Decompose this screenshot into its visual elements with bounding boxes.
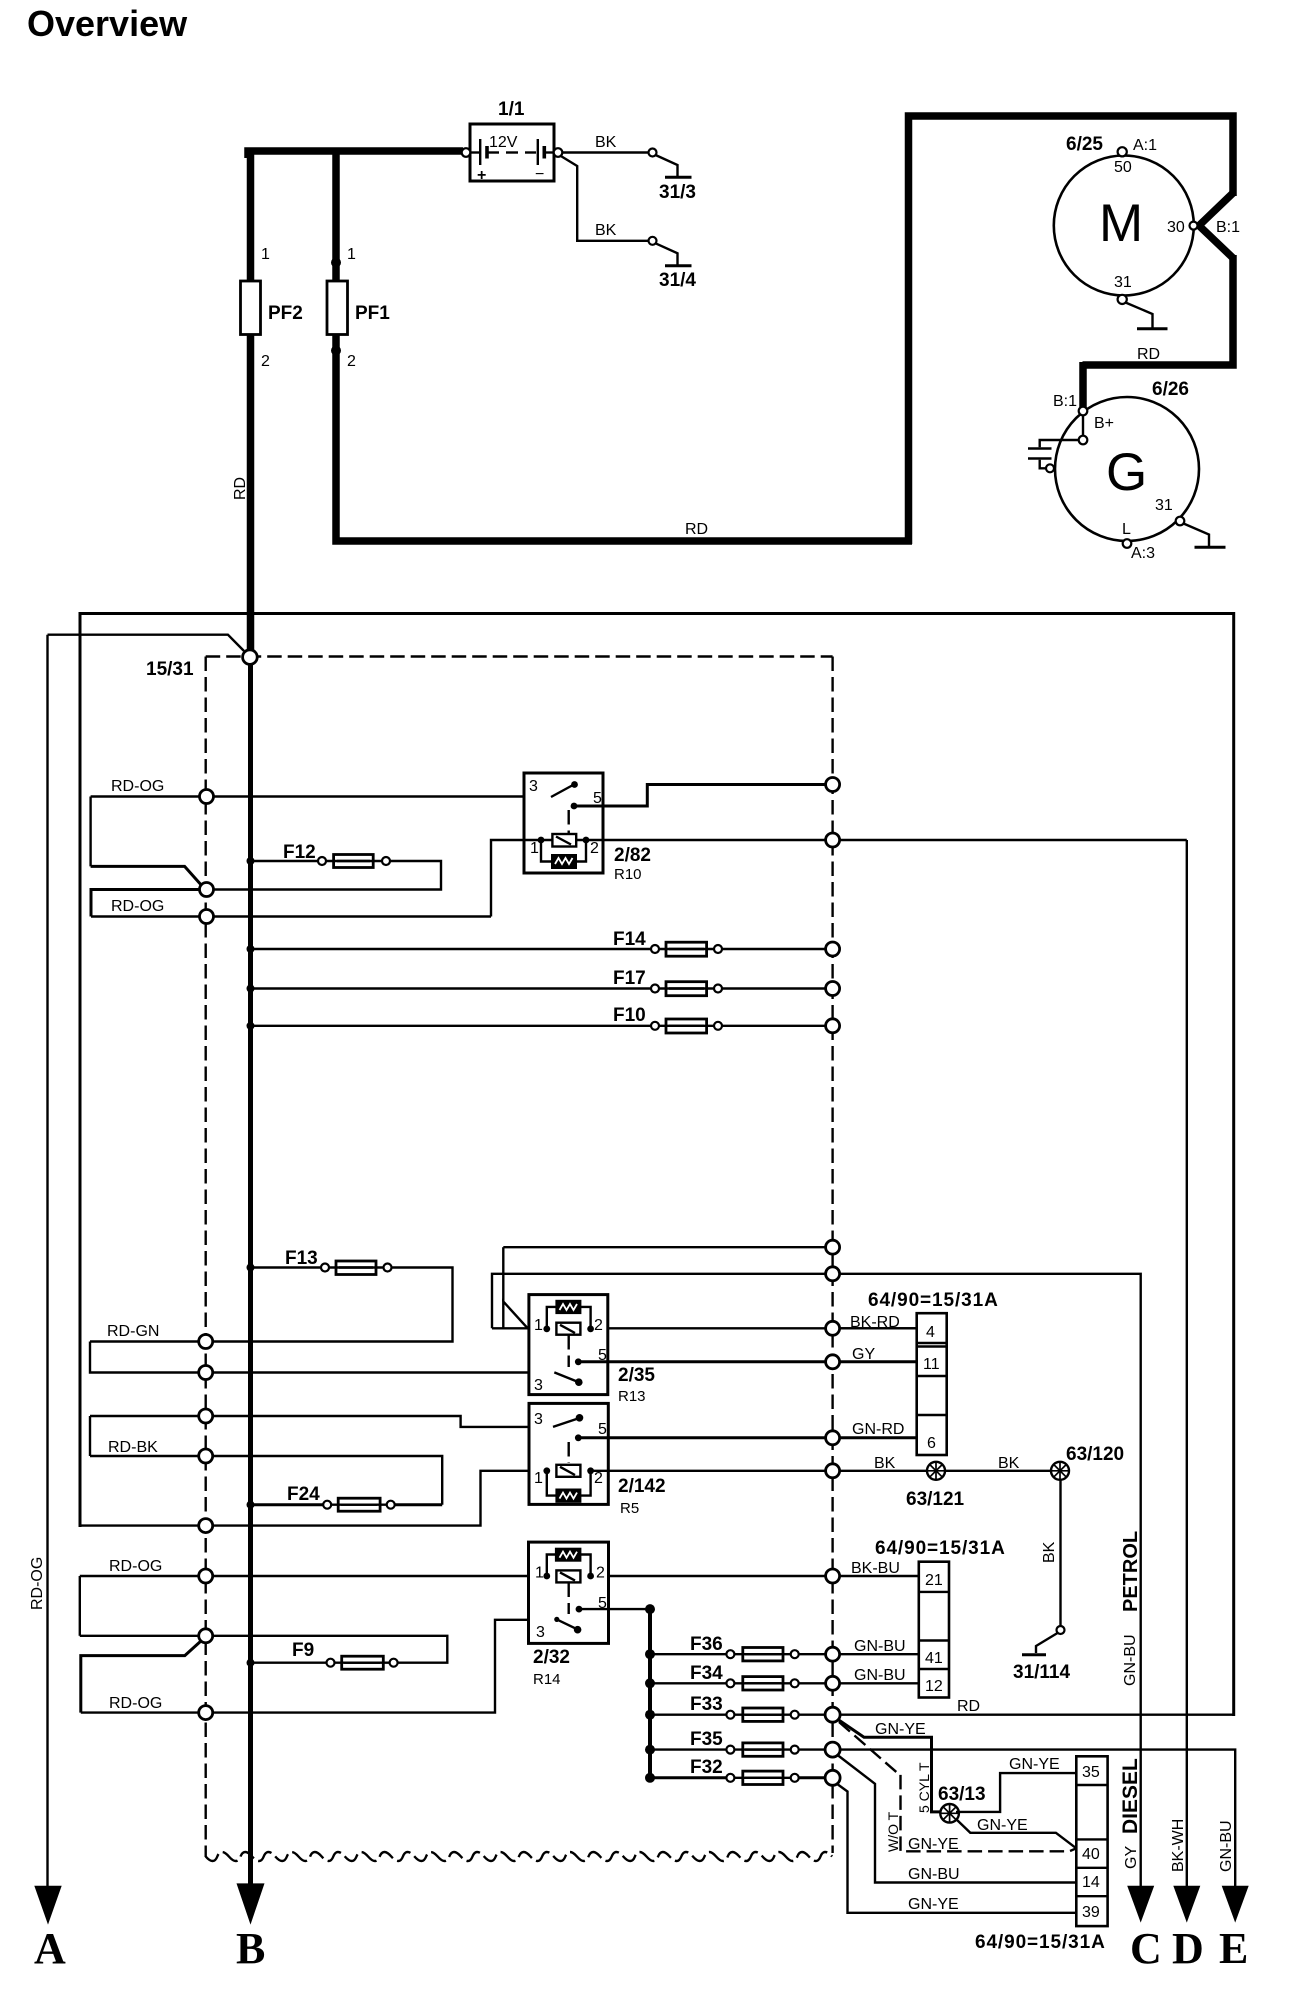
svg-text:PF1: PF1: [355, 303, 390, 324]
svg-text:31/3: 31/3: [659, 182, 696, 203]
terminal L/A:3: [1123, 539, 1132, 548]
arrow B: [237, 1883, 265, 1924]
splice 63/13: [940, 1804, 959, 1823]
svg-text:B:1: B:1: [1053, 393, 1077, 410]
svg-text:2/32: 2/32: [533, 1647, 570, 1668]
svg-text:GN-BU: GN-BU: [908, 1866, 960, 1883]
wire RD-BK row2 to F24 return: [90, 1456, 442, 1505]
wire BK-RD to connector: [840, 1327, 917, 1329]
wire: PF1 lower lead: [336, 335, 912, 542]
switch arm 2/82: [551, 785, 573, 797]
node F33: [825, 1707, 840, 1722]
contact 5 of 2/35: [575, 1358, 582, 1365]
node F17: [826, 982, 840, 996]
resistor 2/35: [547, 1307, 557, 1329]
splice 63/121: [927, 1462, 945, 1480]
svg-text:31/4: 31/4: [659, 270, 696, 291]
dashed bus box: left: [204, 657, 206, 1858]
arrow A: [34, 1886, 61, 1925]
ground 31/3: [656, 155, 678, 176]
svg-text:F10: F10: [613, 1005, 646, 1026]
terminal 30/B:1: [1190, 222, 1198, 230]
svg-text:RD: RD: [232, 477, 249, 500]
wire GN-RD to connector pin6: [840, 1436, 917, 1439]
svg-text:40: 40: [1082, 1846, 1100, 1863]
svg-text:A:3: A:3: [1131, 545, 1155, 562]
wire: A-line feed: [48, 635, 245, 651]
F33 row: [650, 1713, 726, 1715]
ground below motor: [1126, 303, 1153, 328]
wire 2/35 pin row: [492, 1327, 917, 1329]
svg-text:31: 31: [1114, 274, 1132, 291]
coil 2/35: [556, 1323, 580, 1335]
wire: thick drop to generator B:1: [1079, 362, 1087, 407]
wire BK to splices: [840, 1470, 1055, 1472]
svg-text:6: 6: [927, 1435, 936, 1452]
F17 row: [247, 985, 255, 993]
fuse F9: [327, 1659, 335, 1667]
node2' F9 out: [199, 1629, 213, 1643]
fuse column vertical: [648, 1609, 652, 1778]
wire F35 GN-BU to pin 14: [838, 1755, 1077, 1883]
svg-text:GN-YE: GN-YE: [908, 1836, 959, 1853]
svg-text:RD: RD: [1137, 346, 1160, 363]
svg-text:RD-OG: RD-OG: [111, 778, 164, 795]
contact 5 of 2/142: [575, 1434, 582, 1441]
wire F9 loop back to node2': [212, 1636, 447, 1663]
relay 2/82 box: [524, 773, 603, 873]
terminal A:1: [1118, 147, 1127, 156]
svg-text:1: 1: [530, 840, 539, 857]
node BK-RD: [826, 1321, 840, 1335]
F32 row: [650, 1776, 726, 1779]
svg-text:5: 5: [593, 790, 602, 807]
wire B:1 to B+: [1082, 415, 1084, 436]
svg-text:GY: GY: [852, 1346, 875, 1363]
svg-text:39: 39: [1082, 1904, 1100, 1921]
wire RD-OG row3 through 2/32 pins to node: [80, 1575, 826, 1577]
svg-text:F9: F9: [292, 1640, 314, 1661]
motor 6/25: [1054, 156, 1194, 296]
wire: A line vertical: [46, 635, 48, 1886]
wire: thick from notch down to generator: [1083, 255, 1234, 365]
node line A: [826, 1240, 840, 1254]
svg-text:RD-OG: RD-OG: [109, 1558, 162, 1575]
terminal above ground 31/114: [1057, 1626, 1065, 1634]
svg-text:63/13: 63/13: [938, 1784, 986, 1805]
wire RD-GN left drop: [90, 1342, 548, 1373]
svg-text:F14: F14: [613, 929, 646, 950]
wire RD-OG row2 to riser: [91, 915, 491, 917]
svg-text:GN-YE: GN-YE: [1009, 1756, 1060, 1773]
svg-text:B: B: [236, 1924, 265, 1973]
wire diagonal + lower shelf: [81, 1641, 202, 1713]
svg-text:F12: F12: [283, 842, 316, 863]
wire: outer loop (RD return path) top/left/right: [80, 614, 1234, 1717]
svg-text:BK: BK: [595, 134, 617, 151]
svg-text:RD-OG: RD-OG: [29, 1557, 46, 1610]
wire RD-BK left drop: [89, 1416, 91, 1456]
battery plates: [466, 151, 479, 153]
svg-text:2: 2: [594, 1470, 603, 1487]
terminal B+: [1079, 436, 1088, 445]
wire 63/13 to pin 40: [957, 1820, 1077, 1849]
svg-text:GN-RD: GN-RD: [852, 1421, 904, 1438]
ground from G 31: [1184, 524, 1210, 547]
svg-text:RD-GN: RD-GN: [107, 1323, 159, 1340]
svg-text:BK-WH: BK-WH: [1170, 1819, 1187, 1872]
wire 63/13 to pin 35: [956, 1773, 1076, 1812]
svg-text:GN-YE: GN-YE: [875, 1721, 926, 1738]
terminal G 31: [1176, 517, 1185, 526]
terminal G B:1: [1079, 407, 1088, 416]
svg-text:2/142: 2/142: [618, 1476, 666, 1497]
junction node 15/31: [243, 650, 258, 665]
wire 2/82 coil row to D riser: [524, 839, 1187, 841]
wire 2/142 out 5 GN-RD: [578, 1436, 826, 1439]
svg-text:1: 1: [535, 1565, 544, 1582]
relay 2/35 box: [529, 1295, 608, 1395]
node GN-RD: [826, 1431, 840, 1445]
svg-text:F32: F32: [690, 1757, 723, 1778]
generator 6/26: [1055, 397, 1199, 541]
svg-text:1: 1: [534, 1470, 543, 1487]
wire 2/142 pin2 out: [591, 1470, 826, 1472]
node BK-BU 2/32 out: [826, 1569, 840, 1583]
wire RD from F33 to right edge: [840, 1713, 1234, 1715]
svg-text:15/31: 15/31: [146, 659, 194, 680]
relay 2/142 box: [529, 1403, 608, 1504]
svg-text:E: E: [1219, 1924, 1248, 1973]
fuse PF2: [241, 281, 261, 335]
ground 31/114: [1036, 1633, 1058, 1653]
coil 2/32: [556, 1570, 580, 1582]
wire RD-BK row1 to 2/142 pin3: [90, 1416, 553, 1427]
node RD-BK row2: [199, 1449, 213, 1463]
wire riser to 2/82 pin1: [491, 840, 541, 917]
svg-text:R14: R14: [533, 1671, 561, 1688]
node RD-OG2: [200, 910, 214, 924]
svg-text:G: G: [1106, 443, 1147, 502]
svg-text:5: 5: [598, 1421, 607, 1438]
svg-text:RD: RD: [957, 1698, 980, 1715]
svg-text:GN-BU: GN-BU: [854, 1667, 906, 1684]
arrow D: [1173, 1886, 1200, 1923]
node BK row: [826, 1464, 840, 1478]
wire BK to ground 31/3: [562, 151, 649, 153]
node 2/35 pin3 row: [199, 1366, 213, 1380]
svg-text:BK-RD: BK-RD: [850, 1314, 900, 1331]
svg-text:DIESEL: DIESEL: [1119, 1758, 1142, 1834]
resistor 2/142: [547, 1471, 557, 1496]
svg-text:12: 12: [925, 1678, 943, 1695]
svg-text:BK: BK: [1041, 1541, 1058, 1563]
svg-text:R5: R5: [620, 1500, 639, 1517]
wire F12 loop back to node2: [214, 861, 441, 890]
svg-text:F17: F17: [613, 968, 646, 989]
F10 row: [247, 1022, 255, 1030]
svg-text:R10: R10: [614, 866, 642, 883]
svg-text:1/1: 1/1: [498, 99, 525, 120]
wire shelf into node2': [80, 1635, 199, 1637]
svg-text:14: 14: [1082, 1874, 1100, 1891]
wire BK-BU to connector pin21: [840, 1575, 919, 1577]
node2 F12 out: [200, 883, 214, 897]
svg-text:A:1: A:1: [1133, 137, 1157, 154]
wire: thick loop up right side to motor: [909, 116, 1234, 544]
wire GY to connector: [840, 1360, 917, 1363]
actuator dashed 2/32: [568, 1583, 570, 1615]
svg-text:63/120: 63/120: [1066, 1444, 1124, 1465]
node RD-OG4: [199, 1706, 213, 1720]
connector 64/90 mid box: [919, 1562, 949, 1698]
node RD-BK row1: [199, 1409, 213, 1423]
F34 row: [650, 1682, 726, 1684]
svg-text:3: 3: [529, 778, 538, 795]
svg-text:GN-BU: GN-BU: [1218, 1820, 1235, 1872]
wire line B from 2/35 coil to node and C riser: [492, 1274, 1141, 1886]
svg-text:31/114: 31/114: [1013, 1662, 1070, 1683]
svg-text:F34: F34: [690, 1663, 723, 1684]
wire BK to ground 31/4: [560, 156, 649, 241]
node outer-left wire: [199, 1519, 213, 1533]
F13 row: [247, 1264, 255, 1272]
svg-text:63/121: 63/121: [906, 1489, 965, 1510]
svg-text:RD-OG: RD-OG: [111, 898, 164, 915]
svg-text:F13: F13: [285, 1248, 318, 1269]
ground 31/4: [656, 243, 678, 264]
wire BK down from 63/120: [1059, 1480, 1061, 1626]
resistor 2/32: [547, 1555, 557, 1577]
wire shelf + diagonal into node2: [91, 866, 203, 887]
svg-text:2/82: 2/82: [614, 845, 651, 866]
F24 row: [247, 1501, 255, 1509]
connector 64/90 upper box: [917, 1313, 947, 1455]
svg-text:64/90=15/31A: 64/90=15/31A: [868, 1290, 999, 1311]
arrow C: [1127, 1886, 1154, 1923]
svg-text:+: +: [477, 167, 486, 184]
arrow E: [1222, 1886, 1249, 1923]
svg-text:3: 3: [536, 1624, 545, 1641]
coil 2/142: [556, 1465, 580, 1477]
svg-text:BK-BU: BK-BU: [851, 1560, 900, 1577]
svg-text:6/25: 6/25: [1066, 134, 1103, 155]
main B line below junction: [248, 664, 253, 1884]
node RD-OG1: [200, 790, 214, 804]
svg-text:F35: F35: [690, 1729, 723, 1750]
node RD-GN: [199, 1335, 213, 1349]
svg-text:2/35: 2/35: [618, 1365, 655, 1386]
wire node2 left stub: [91, 890, 199, 917]
coil 2/82: [538, 837, 545, 844]
relay 2/32 box: [529, 1542, 609, 1643]
svg-text:5 CYL T: 5 CYL T: [916, 1762, 932, 1813]
svg-text:64/90=15/31A: 64/90=15/31A: [975, 1932, 1106, 1953]
wire F13 loop to RD-GN node: [90, 1268, 453, 1342]
node on B for F9: [247, 1659, 255, 1667]
fuse F12: [318, 857, 326, 865]
contact 5 of 2/32: [576, 1606, 583, 1613]
switch arm 2/32: [554, 1617, 559, 1622]
wire B to fuse F9: [251, 1661, 327, 1663]
svg-text:2: 2: [596, 1565, 605, 1582]
svg-text:1: 1: [534, 1317, 543, 1334]
node RD-OG3: [199, 1569, 213, 1583]
splice 63/120: [1051, 1462, 1069, 1480]
node line B / PETROL: [826, 1267, 840, 1281]
svg-text:Overview: Overview: [27, 3, 188, 44]
node F10: [826, 1019, 840, 1033]
dashed bus box: right: [831, 657, 833, 1854]
svg-text:R13: R13: [618, 1388, 646, 1405]
F35 row: [650, 1748, 726, 1750]
svg-text:F24: F24: [287, 1484, 320, 1505]
svg-text:50: 50: [1114, 159, 1132, 176]
actuator dashed 2/142: [568, 1442, 570, 1463]
svg-text:GN-BU: GN-BU: [854, 1638, 906, 1655]
node 2/82 out 5: [826, 778, 840, 792]
svg-text:RD: RD: [685, 521, 708, 538]
svg-text:3: 3: [534, 1377, 543, 1394]
dashed bus box: top: [206, 655, 833, 657]
svg-text:−: −: [535, 166, 544, 183]
node 2/82 out coil: [826, 833, 840, 847]
svg-text:F36: F36: [690, 1634, 723, 1655]
svg-text:C: C: [1130, 1924, 1162, 1973]
svg-text:A: A: [34, 1924, 66, 1973]
node on B for F12: [247, 857, 255, 865]
svg-text:PETROL: PETROL: [1120, 1531, 1142, 1612]
D riser from 2/82 down to arrow D: [1186, 840, 1188, 1886]
wire RD-OG row4 to 2/32 pin3 riser: [81, 1620, 555, 1713]
svg-text:2: 2: [594, 1317, 603, 1334]
svg-text:BK: BK: [998, 1455, 1020, 1472]
wire outer-left into 2/142 pin1: [80, 1471, 547, 1526]
node F35: [825, 1742, 840, 1757]
wire F32 GN-YE to pin 39: [837, 1784, 1077, 1913]
F36 row: [650, 1653, 726, 1655]
connector 64/90 bottom box: [1076, 1756, 1107, 1926]
svg-text:30: 30: [1167, 219, 1185, 236]
node F14: [826, 942, 840, 956]
terminal M 31: [1118, 295, 1127, 304]
svg-text:D: D: [1172, 1924, 1204, 1973]
node: PF1 pin1 dot: [331, 258, 341, 268]
switch arm 2/142: [553, 1419, 578, 1427]
wire left drop RD-OG3: [79, 1576, 81, 1636]
svg-text:1: 1: [347, 246, 356, 263]
svg-text:31: 31: [1155, 497, 1173, 514]
wire: PF2 lower lead down to junction 15/31: [247, 335, 255, 651]
wire RD-OG row1 to relay 2/82 pin3: [91, 795, 551, 797]
wire: thick RD bus from battery to PF2/PF1: [248, 151, 463, 158]
wire F35 to E drop: [840, 1750, 1235, 1886]
svg-text:11: 11: [923, 1356, 940, 1373]
capacitor at generator: [1040, 440, 1079, 447]
svg-text:F33: F33: [690, 1694, 723, 1715]
wire: PF2 upper lead: [247, 148, 255, 282]
node GY: [826, 1355, 840, 1369]
svg-text:BK: BK: [595, 222, 617, 239]
svg-text:1: 1: [261, 246, 270, 263]
svg-text:21: 21: [925, 1572, 943, 1589]
svg-text:GN-BU: GN-BU: [1122, 1634, 1139, 1686]
resistor 2/82: [541, 840, 552, 862]
wire left drop of RD-OG1: [89, 797, 91, 867]
battery terminals: [462, 148, 471, 157]
svg-text:RD-OG: RD-OG: [109, 1695, 162, 1712]
wire 2/32 out 5 to fuse column: [579, 1608, 650, 1610]
svg-text:GY: GY: [1123, 1846, 1140, 1869]
svg-text:3: 3: [534, 1411, 543, 1428]
wire B to fuse F12: [251, 860, 319, 862]
relay actuator dashed 2/82: [568, 810, 570, 833]
node F32: [825, 1770, 840, 1785]
svg-text:B:1: B:1: [1216, 219, 1240, 236]
switch arm 2/35: [554, 1372, 577, 1381]
svg-text:4: 4: [926, 1324, 935, 1341]
svg-text:L: L: [1122, 521, 1131, 538]
fuse PF1: [327, 281, 348, 335]
wire 2/35 out 5: [578, 1360, 826, 1363]
svg-text:B+: B+: [1094, 415, 1114, 432]
wavy bottom of dashed box: [206, 1852, 832, 1861]
svg-text:6/26: 6/26: [1152, 379, 1189, 400]
F14 row: [247, 945, 255, 953]
svg-text:RD-BK: RD-BK: [108, 1439, 158, 1456]
dashed W/O T branch from F33: [839, 1722, 1076, 1851]
svg-text:2: 2: [347, 353, 356, 370]
wire line A from 2/35 coil to node: [503, 1302, 527, 1329]
svg-text:41: 41: [925, 1650, 943, 1667]
svg-text:GN-YE: GN-YE: [908, 1896, 959, 1913]
svg-text:35: 35: [1082, 1764, 1100, 1781]
svg-text:PF2: PF2: [268, 303, 303, 324]
wire: PF1 upper lead: [332, 151, 340, 282]
svg-text:W/O T: W/O T: [885, 1811, 901, 1852]
wire from contact 5 up to node: [574, 785, 826, 807]
wire GN-YE 5CYL solid from F33: [838, 1720, 940, 1812]
svg-text:2: 2: [261, 353, 270, 370]
node: PF1 pin2 dot: [331, 346, 341, 356]
svg-text:12V: 12V: [489, 134, 518, 151]
svg-text:M: M: [1099, 194, 1143, 253]
wire: notch into motor B:1: [1199, 193, 1233, 258]
svg-text:64/90=15/31A: 64/90=15/31A: [875, 1538, 1006, 1559]
svg-text:2: 2: [590, 840, 599, 857]
terminal capacitor to case: [1046, 464, 1054, 472]
svg-text:GN-YE: GN-YE: [977, 1817, 1028, 1834]
actuator dashed 2/35: [568, 1335, 570, 1367]
svg-text:BK: BK: [874, 1455, 896, 1472]
